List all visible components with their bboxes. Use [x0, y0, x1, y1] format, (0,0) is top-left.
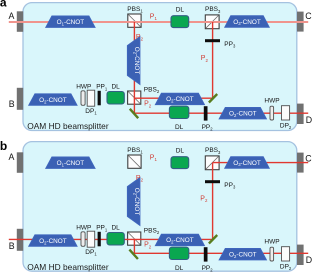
- O1-CNOT gate on beam A (panel a): [46, 16, 95, 27]
- svg-text:O3-CNOT: O3-CNOT: [233, 19, 261, 26]
- dove prism DP2 before output D (panel a): [282, 106, 290, 120]
- wire: vertical beam from PBS3 down to fold mirror (panel a): [212, 22, 214, 99]
- svg-text:D: D: [306, 255, 312, 265]
- phase plate PP1 on beam B (panel a): [98, 91, 101, 106]
- wire: horizontal beam PBS3 to output C (panel b): [213, 162, 309, 164]
- port connector B (panel a): [17, 88, 23, 110]
- rotated O2-CNOT gate on vertical P2 beam (panel a): [127, 37, 139, 85]
- PBS3 cube (panel a): [205, 15, 219, 29]
- svg-text:a: a: [0, 0, 7, 10]
- dove prism DP1 on beam B (panel b): [87, 231, 95, 247]
- svg-text:O2-CNOT: O2-CNOT: [229, 111, 257, 118]
- wire: vertical beam from fold mirror up to PBS3 (panel b): [212, 163, 214, 240]
- fold mirror M2 on PBS3 path (panel a): [209, 94, 217, 103]
- panel a enclosure box: OAM HD beamsplitter: [23, 3, 297, 131]
- PBS2 cube (panel b): [128, 232, 141, 245]
- half-wave plate HWP on beam B (panel a): [81, 91, 85, 106]
- delay line DL on beam B (panel b): [107, 233, 124, 246]
- svg-text:HWP: HWP: [76, 84, 91, 91]
- svg-text:HWP: HWP: [264, 239, 279, 246]
- fold mirror M1 below PBS2 (panel a): [130, 109, 138, 118]
- phase plate PP1 on beam B (panel b): [98, 232, 101, 247]
- wire: input B horizontal beam to fold mirror (panel b): [9, 238, 213, 240]
- svg-text:A: A: [9, 152, 15, 162]
- svg-text:C: C: [305, 153, 312, 163]
- O3-CNOT gate before output C (panel b): [225, 157, 269, 168]
- fold mirror M1 below PBS2 (panel b): [129, 250, 138, 259]
- O2-CNOT gate before output D (panel a): [219, 108, 266, 119]
- svg-text:OAM HD beamsplitter: OAM HD beamsplitter: [27, 262, 109, 272]
- O2-CNOT gate between PBS2 and mirror (panel b): [155, 234, 204, 245]
- O2-CNOT gate between PBS2 and mirror (panel a): [155, 93, 204, 104]
- svg-text:O2-CNOT: O2-CNOT: [166, 96, 194, 103]
- port connector D (panel a): [297, 104, 304, 124]
- port connector C (panel a): [297, 12, 304, 32]
- svg-text:O3-CNOT: O3-CNOT: [233, 160, 261, 167]
- svg-text:DL: DL: [176, 6, 185, 13]
- svg-text:b: b: [0, 139, 7, 153]
- dove prism DP2 before output D (panel b): [282, 247, 290, 261]
- port connector B (panel b): [17, 229, 23, 251]
- port connector A (panel b): [17, 152, 23, 173]
- svg-text:DL: DL: [175, 265, 184, 272]
- port connector A (panel a): [17, 11, 23, 32]
- PBS1 cube (panel a): [128, 14, 141, 27]
- half-wave plate HWP on beam B (panel b): [81, 232, 85, 247]
- svg-text:O1-CNOT: O1-CNOT: [57, 160, 85, 167]
- svg-text:D: D: [306, 115, 312, 125]
- phase plate PP3 on PBS3 vertical beam (panel b): [205, 180, 220, 183]
- wire: bottom beam from mirror to output D (panel b): [134, 252, 308, 254]
- svg-text:DL: DL: [111, 84, 120, 91]
- svg-text:O2-CNOT: O2-CNOT: [166, 237, 194, 244]
- wire: vertical beam PBS2 down to mirror (panel b): [133, 239, 135, 253]
- half-wave plate HWP before output D (panel a): [270, 106, 274, 120]
- delay line DL on bottom beam (panel b): [169, 247, 188, 259]
- svg-text:A: A: [9, 11, 15, 21]
- panel b enclosure box: OAM HD beamsplitter: [23, 142, 297, 272]
- svg-text:O1-CNOT: O1-CNOT: [57, 19, 85, 26]
- svg-text:B: B: [9, 99, 15, 109]
- svg-text:DL: DL: [175, 124, 184, 131]
- PBS2 cube (panel a): [128, 91, 141, 104]
- PBS3 cube (panel b): [205, 156, 219, 170]
- svg-text:O2-CNOT: O2-CNOT: [229, 252, 257, 259]
- O3-CNOT gate before output C (panel a): [225, 16, 269, 27]
- svg-text:C: C: [305, 11, 312, 21]
- delay line DL on bottom beam (panel a): [169, 106, 188, 118]
- svg-text:DL: DL: [176, 147, 185, 154]
- O2-CNOT gate before output D (panel b): [219, 249, 266, 260]
- svg-text:B: B: [9, 241, 15, 251]
- delay line DL on beam B (panel a): [107, 92, 124, 105]
- svg-text:O2-CNOT: O2-CNOT: [39, 238, 67, 245]
- fold mirror M2 on PBS3 path (panel b): [209, 235, 217, 244]
- svg-text:HWP: HWP: [76, 225, 91, 232]
- svg-text:HWP: HWP: [264, 98, 279, 105]
- delay line DL on path A (panel b): [171, 157, 189, 169]
- O2-CNOT gate on beam B (panel b): [29, 235, 77, 246]
- svg-text:O2-CNOT: O2-CNOT: [132, 47, 139, 75]
- phase plate PP2 on bottom beam (panel b): [204, 247, 208, 261]
- svg-text:O2-CNOT: O2-CNOT: [39, 97, 67, 104]
- wire: horizontal beam PBS2 to fold mirror (panel a): [134, 97, 213, 99]
- wire: vertical beam P2 from PBS1 through PBS2 down to mirror (panel a): [133, 22, 135, 114]
- PBS1 cube (panel b): [128, 155, 141, 168]
- O2-CNOT gate on beam B (panel a): [29, 94, 77, 105]
- O1-CNOT gate on path A (panel b): [46, 157, 95, 168]
- wire: input A to output C horizontal beam (panel a): [9, 21, 308, 23]
- svg-text:DL: DL: [111, 225, 120, 232]
- phase plate PP3 on PBS3 vertical beam (panel a): [205, 39, 220, 42]
- port connector D (panel b): [297, 245, 304, 265]
- svg-text:O2-CNOT: O2-CNOT: [132, 188, 139, 216]
- rotated O2-CNOT gate (panel b): [127, 178, 139, 226]
- wire: bottom beam from mirror to output D (panel a): [134, 112, 308, 114]
- half-wave plate HWP before output D (panel b): [270, 247, 274, 261]
- delay line DL on beam A (panel a): [171, 16, 189, 28]
- dove prism DP1 on beam B (panel a): [87, 90, 95, 106]
- svg-text:OAM HD beamsplitter: OAM HD beamsplitter: [27, 121, 109, 131]
- phase plate PP2 on bottom beam (panel a): [204, 106, 208, 120]
- port connector C (panel b): [297, 153, 304, 173]
